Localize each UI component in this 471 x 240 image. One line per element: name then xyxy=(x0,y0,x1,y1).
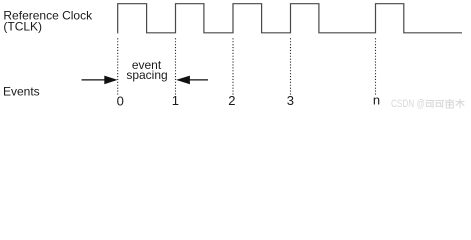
svg-text:(TCLK): (TCLK) xyxy=(3,20,42,34)
svg-text:Events: Events xyxy=(3,84,40,98)
svg-text:0: 0 xyxy=(117,94,124,109)
svg-text:1: 1 xyxy=(172,93,179,108)
svg-text:CSDN @: CSDN @ xyxy=(391,98,425,110)
svg-text:spacing: spacing xyxy=(126,68,167,82)
svg-text:2: 2 xyxy=(228,93,235,108)
svg-text:3: 3 xyxy=(287,93,294,108)
svg-text:n: n xyxy=(373,92,380,107)
